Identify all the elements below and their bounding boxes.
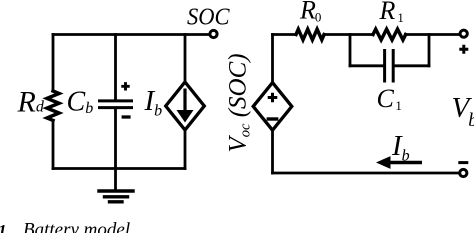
svg-text:SOC: SOC (187, 4, 230, 30)
svg-text:Battery model.: Battery model. (23, 220, 135, 234)
svg-text:1: 1 (0, 221, 7, 233)
svg-text:Voc (SOC): Voc (SOC) (225, 53, 254, 152)
